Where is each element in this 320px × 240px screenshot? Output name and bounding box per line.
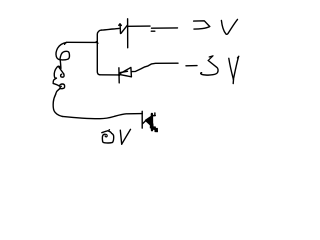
net label 0V xyxy=(102,129,131,144)
wire xyxy=(132,63,178,71)
wire xyxy=(65,42,98,44)
net label -3V xyxy=(186,56,239,84)
diode D2 xyxy=(118,68,131,83)
diode D1 xyxy=(119,19,128,48)
wire xyxy=(150,124,157,132)
node A xyxy=(96,42,98,44)
wire xyxy=(128,26,177,31)
net label 3V xyxy=(194,19,238,34)
wire xyxy=(97,42,118,75)
inductor L1 xyxy=(53,42,69,116)
wire xyxy=(97,28,119,42)
wire xyxy=(62,111,142,128)
diode D3 xyxy=(143,113,156,130)
